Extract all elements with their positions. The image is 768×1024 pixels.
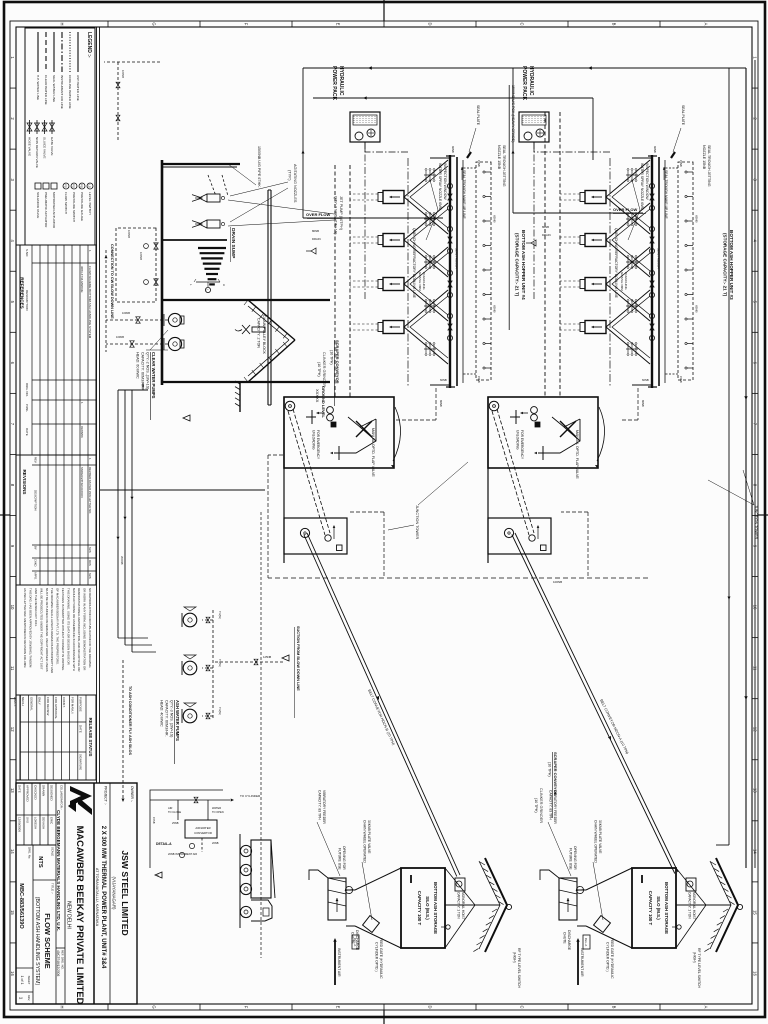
hopper unit #3 refractory cooling dash-dot line [609,158,611,386]
svg-text:MONORAIL HOIST: MONORAIL HOIST [692,892,696,920]
hydraulic dash-dot lines unit #4 [364,142,366,300]
hopper unit #3 rim valve cluster at x=197 [649,183,654,188]
svg-text:Y-1(W): Y-1(W) [218,707,221,715]
svg-text:SCALE: SCALE [51,847,55,856]
svg-text:NEW DELHI: NEW DELHI [66,901,72,929]
svg-text:LEVEL SWITCH: LEVEL SWITCH [88,192,92,215]
svg-text:DESIGNED: DESIGNED [49,785,53,802]
svg-text:CAPACITY: 2 TON: CAPACITY: 2 TON [257,318,261,348]
hopper unit #4 gate-to-channel stubs [350,193,378,195]
hopper unit #4 seal trough jetting nozzle dashed header [476,162,491,380]
svg-text:20NB: 20NB [212,841,219,845]
svg-text:Det.-A: Det.-A [584,938,588,947]
svg-text:PRESSURE GAUGE: PRESSURE GAUGE [80,192,84,221]
svg-text:100NB: 100NB [116,335,124,339]
junction tower #4 clinker grinder [327,407,334,414]
chain pulley block [252,327,265,332]
svg-text:03/08/06: 03/08/06 [80,426,84,438]
svg-text:FUTURE USE: FUTURE USE [569,848,573,870]
svg-text:14: 14 [10,849,15,854]
svg-text:TO CYLINDER: TO CYLINDER [240,794,261,798]
clear water pumps [168,313,181,326]
svg-text:QUENCHING/REFRACTORY COOLING L: QUENCHING/REFRACTORY COOLING LINE [412,228,416,299]
svg-text:GATE VALVE: GATE VALVE [50,137,54,156]
title block bottom row cells [16,967,33,969]
svg-text:1500NB U/S PCK (HEAVY GRADE): 1500NB U/S PCK (HEAVY GRADE) [511,85,515,142]
svg-text:B: B [612,23,617,26]
svg-text:THE DRAWING SHALL ALWAYS REMAI: THE DRAWING SHALL ALWAYS REMAIN OUR PROP… [50,588,54,673]
title block owner row [109,783,111,1004]
svg-text:AIR: AIR [168,806,172,810]
svg-text:PNEUMATIC ACTUATOR: PNEUMATIC ACTUATOR [44,192,48,228]
hopper unit #3 discharge gate at x=327 [585,321,606,334]
svg-text:FEED GATE (HYDRAULIC: FEED GATE (HYDRAULIC [379,938,383,979]
bottom ash storage silo B shell [632,868,676,948]
revisions table [20,455,96,585]
junction tower #4 scraper head pulley [285,401,295,411]
hopper unit #4 discharge gate at x=240 [383,234,404,247]
svg-text:15NB: 15NB [477,160,481,167]
agitating nozzle dashes [222,175,228,196]
svg-text:PS: PS [72,184,76,188]
svg-text:ASH WATER LINE: ASH WATER LINE [76,75,80,101]
release status table [20,695,96,780]
svg-text:(HIGH): (HIGH) [513,952,517,963]
svg-text:16: 16 [10,971,15,976]
svg-text:COLLABORATOR :-: COLLABORATOR :- [60,785,64,810]
svg-text:DESCRIPTION: DESCRIPTION [33,490,37,511]
svg-text:DEMONSTRATIONAL REPRODUCTION,: DEMONSTRATIONAL REPRODUCTION, AND NO ART… [77,588,81,671]
title block project row [93,783,95,1004]
hopper unit #4 rim valve cluster at x=327 [447,313,452,318]
svg-text:ASH WATER PUMPS: ASH WATER PUMPS [175,700,180,741]
references table [20,245,96,455]
svg-text:FOR REVIEW: FOR REVIEW [46,697,50,716]
svg-text:THIS DRAWING, USING ITS DATA O: THIS DRAWING, USING ITS DATA OR DESIGN B… [66,588,70,665]
title block frame [16,783,137,1004]
svg-text:ONLY: ONLY [38,697,42,705]
svg-text:SNRGA/VJT/EC/A/06/06: SNRGA/VJT/EC/A/06/06 [80,467,84,498]
bottom ash storage silo A shell [401,868,445,948]
svg-text:DATE: DATE [79,725,83,733]
svg-text:F: F [244,1006,249,1009]
svg-text:WATER SPRAY NOZZLE 6MM: WATER SPRAY NOZZLE 6MM [640,163,644,210]
junction tower #4 scraper incline [293,409,330,533]
svg-text:MANUFACTURING OR ASSEMBLING IN: MANUFACTURING OR ASSEMBLING IN ACCORDANC… [72,588,76,671]
svg-text:DATE: DATE [25,428,29,436]
svg-text:LOKESH: LOKESH [33,817,37,829]
svg-text:CONST.: CONST. [62,697,66,708]
svg-text:SEAL TROUGH: SEAL TROUGH [455,248,459,269]
svg-text:60NB: 60NB [440,378,447,382]
svg-text:CAPACITY: 1 TON: CAPACITY: 1 TON [457,892,461,919]
monorail beam over sump [270,190,272,405]
svg-text:FUTURE USE: FUTURE USE [338,848,342,870]
svg-text:DISCHARGE: DISCHARGE [567,930,571,951]
svg-text:WILL BE PROSECUTED UNDER THE C: WILL BE PROSECUTED UNDER THE COPYRIGHT A… [39,588,43,670]
svg-text:F: F [244,23,249,26]
bottom ash hopper unit #4 rim line [449,155,451,388]
junction tower #4 emergency unloading spout [311,410,313,424]
svg-text:DRAIN: DRAIN [312,237,321,241]
main overflow pipe top horizontal run [745,68,747,868]
svg-text:SEAL WATER LINE: SEAL WATER LINE [52,75,56,102]
svg-text:VIBRATORY FEEDER: VIBRATORY FEEDER [553,790,557,824]
svg-text:CHUTE: CHUTE [563,932,567,944]
svg-text:BY: BY [33,546,37,550]
svg-text:OPENING FOR: OPENING FOR [342,846,346,870]
svg-text:12: 12 [10,727,15,732]
hopper unit #3 discharge gate at x=197 [585,191,606,204]
flag note at suction [282,655,289,661]
junction tower #3 structure [488,397,598,468]
svg-text:65NB: 65NB [695,305,699,313]
svg-text:TO CLOSE: TO CLOSE [168,810,181,814]
svg-text:DEVASH: DEVASH [41,817,45,829]
svg-text:WATER: WATER [212,806,221,810]
svg-text:(STORAGE CAPACITY:- 21 T): (STORAGE CAPACITY:- 21 T) [723,233,728,297]
detail-A flag [155,872,162,878]
svg-text:Y-1(W): Y-1(W) [218,659,221,667]
silo B roof and railing [716,858,738,952]
svg-text:BOTTOM ASH STORAGE: BOTTOM ASH STORAGE [664,882,669,934]
to ash conditioner dashed line [122,660,124,800]
hopper unit #4 V-section at x=240 [404,203,448,277]
drain sump pit wall [162,299,330,301]
svg-text:H: H [60,1005,65,1008]
hopper unit #4 rim valve cluster at x=240 [447,226,452,231]
belt conveyor tail house #4 [284,518,347,554]
svg-text:XXXXX: XXXXX [315,389,320,403]
svg-text:(TYP.): (TYP.) [288,170,292,181]
svg-text:15NB: 15NB [679,376,683,383]
hydraulic power pack #1 [350,112,380,142]
svg-text:CHAIN PULLEY BLOCK: CHAIN PULLEY BLOCK [262,315,266,355]
hopper unit #3 end connection drops [632,157,652,159]
junction tower #4 structure [284,397,394,468]
legend actuator symbols [51,183,57,189]
svg-text:15NB: 15NB [152,817,156,824]
svg-text:25NB: 25NB [172,821,179,825]
hopper unit #4 V-section at x=284 [404,247,448,321]
hydraulic power pack #2 [519,112,549,142]
svg-text:DETAIL-A: DETAIL-A [156,842,172,846]
hopper unit #3 rim valve cluster at x=327 [649,313,654,318]
svg-text:HEAD: 60 MWC: HEAD: 60 MWC [136,352,140,379]
hopper unit #4 discharge gate at x=284 [383,278,404,291]
svg-text:REF. DRG. NO.: REF. DRG. NO. [61,950,65,970]
drain sump floor [161,160,164,385]
svg-text:CAPACITY: 60M3/HR.: CAPACITY: 60M3/HR. [141,352,145,389]
drain sump water hatch [198,247,226,249]
svg-text:DRG, No.: DRG, No. [28,847,32,859]
svg-text:CHECKED: CHECKED [33,785,37,801]
svg-text:SEAL TROUGH JETTING: SEAL TROUGH JETTING [707,145,711,187]
svg-text:AND THE DESIGN ACT 1911.: AND THE DESIGN ACT 1911. [34,588,38,627]
svg-text:OR WORK IN ANY FORM, INCLUDING: OR WORK IN ANY FORM, INCLUDING DEMONSTRA… [83,588,87,670]
svg-text:SEAL PLATE: SEAL PLATE [681,105,685,126]
svg-text:MACAWBER BEEKAY PRIVATE LIMITE: MACAWBER BEEKAY PRIVATE LIMITED [75,826,86,1005]
svg-text:60NB: 60NB [653,146,657,153]
svg-text:A: A [704,1006,709,1009]
svg-text:MECH.: MECH. [21,697,25,707]
instrument air dashed run [260,512,262,958]
svg-text:CONVERTOR: CONVERTOR [194,831,212,835]
overflow branch line unit #3 [512,68,514,213]
svg-text:TO ASH CONDITIONER FLY ASH SIL: TO ASH CONDITIONER FLY ASH SILOS [128,686,132,755]
svg-text:INSPECTION WINDOW: INSPECTION WINDOW [443,163,447,200]
svg-text:QTY:-2 NOS.,(1W+1S): QTY:-2 NOS.,(1W+1S) [334,196,338,235]
svg-text:PG: PG [80,184,84,188]
junction tower #4 dashed bypass arc [393,407,401,461]
overflow branch line unit #4 [302,68,304,218]
svg-text:GENERAL: GENERAL [29,697,33,711]
svg-text:NO REPRODUCTION OR PUBLICATION: NO REPRODUCTION OR PUBLICATION OF THE DR… [88,588,92,668]
svg-text:C: C [520,22,525,25]
svg-text:30KNB PLATE VALVE: 30KNB PLATE VALVE [367,820,371,854]
svg-text:TO OPEN: TO OPEN [212,810,224,814]
legend box [25,28,95,245]
pipe elbows into ash water pump suction [132,651,156,653]
sump drain line down [100,489,265,491]
belt conveyor HDCN-B incline [307,533,460,875]
svg-text:3083-4744-M0#03E: 3083-4744-M0#03E [80,266,84,293]
svg-text:REFERENCES: REFERENCES [20,277,25,308]
svg-text:PURPOSE: PURPOSE [79,697,83,712]
svg-text:H: H [60,22,65,25]
bottom ash hopper unit #3 rim line [651,155,653,388]
svg-text:100NB: 100NB [139,252,143,260]
svg-text:49/C5748/12/2006: 49/C5748/12/2006 [56,950,60,976]
svg-text:FEED GATE (HYDRAULIC: FEED GATE (HYDRAULIC [610,938,614,979]
junction tower #4 Y discharge chute [342,419,376,453]
svg-text:RELEASE STATUS: RELEASE STATUS [88,718,93,757]
svg-text:FLOW SCHEME: FLOW SCHEME [43,913,52,968]
blow down corner dashed run [104,61,160,63]
svg-text:DRAIN SUMP: DRAIN SUMP [230,228,236,259]
svg-text:G: G [152,22,157,25]
svg-text:AT TORANAGALLU, KARNATAKA: AT TORANAGALLU, KARNATAKA [95,868,99,927]
svg-text:(STORAGE CAPACITY:- 21 T): (STORAGE CAPACITY:- 21 T) [515,233,520,297]
svg-text:SVS: SVS [25,817,29,823]
svg-text:(10 TPH): (10 TPH) [534,798,538,813]
scraper conveyor channel unit #3 [559,112,561,397]
svg-text:80NB: 80NB [542,225,549,229]
hopper unit #3 rim valve cluster at x=240 [649,226,654,231]
A-frame gantry [248,300,295,340]
junction tower #3 flap valve spout [542,446,544,460]
svg-text:125NB: 125NB [263,655,271,659]
svg-text:MANUAL OPTD. FLAP VALVE: MANUAL OPTD. FLAP VALVE [575,430,579,479]
svg-text:TITLE :-: TITLE :- [51,883,55,894]
svg-text:H.P. WATER LINE: H.P. WATER LINE [36,75,40,100]
silo B instrument air arrow [577,940,579,985]
ash water pumps riser to suction line [213,661,283,663]
svg-text:DESCRIPTION: DESCRIPTION [25,290,29,311]
svg-text:1 of 1: 1 of 1 [20,976,24,985]
hopper unit #3 seal trough jetting nozzle dashed header [678,162,693,380]
svg-text:D: D [428,1005,433,1008]
detail-A piping [150,799,230,801]
svg-text:(BOTTOM ASH HANDLING SYSTEM): (BOTTOM ASH HANDLING SYSTEM) [34,897,40,986]
drain sump right wall [162,381,330,383]
svg-text:SILO (M.S.): SILO (M.S.) [425,896,430,920]
svg-text:SIGNATURE: SIGNATURE [79,754,83,770]
dump truck [251,840,271,898]
junction tower #3 scraper incline [497,409,534,533]
svg-text:CAPACITY: 83 TPH: CAPACITY: 83 TPH [318,790,322,820]
svg-text:OWNER :-: OWNER :- [130,786,134,802]
svg-text:30KNB PLATE VALVE: 30KNB PLATE VALVE [598,820,602,854]
svg-text:CLEAR WATER PUMPS: CLEAR WATER PUMPS [151,352,156,399]
belt conveyor HDCN-A incline [515,533,678,872]
svg-text:CYLINDER OPTD.): CYLINDER OPTD.) [375,942,379,972]
svg-text:NOZZLE 6MM: NOZZLE 6MM [418,272,422,291]
drain sump partition wall [162,239,227,241]
svg-text:QUENCHING/REFRACTORY COOLING L: QUENCHING/REFRACTORY COOLING LINE [614,228,618,299]
svg-text:(10 TPH): (10 TPH) [317,362,321,377]
svg-text:G: G [152,1005,157,1008]
svg-text:QTY:-3 NOS. (2W+1S): QTY:-3 NOS. (2W+1S) [170,700,174,737]
main overflow pipe vertical run [303,67,746,69]
hopper unit #4 rim valve cluster at x=284 [447,270,452,275]
svg-text:15NB: 15NB [679,160,683,167]
hopper unit #4 discharge gate at x=197 [383,191,404,204]
title block scale cell [33,879,56,881]
svg-text:SHEET: SHEET [27,976,31,985]
svg-text:FOR MANU./: FOR MANU./ [70,697,74,714]
svg-text:60NB: 60NB [642,378,649,382]
junction tower #3 Y discharge chute [546,419,580,453]
svg-text:THIS DRG. HAS BEEN APPROVED BY: THIS DRG. HAS BEEN APPROVED BY JSW/BHEL/… [29,588,33,668]
svg-text:SVS: SVS [88,573,92,579]
info strip boundary double line [99,27,101,783]
svg-text:10: 10 [10,605,15,610]
svg-text:REVISED AS PER JSW LETTER NO.: REVISED AS PER JSW LETTER NO. [88,467,92,514]
svg-text:BOTTOM ASH HOPPER UNIT #3: BOTTOM ASH HOPPER UNIT #3 [729,230,734,300]
svg-text:FLOW SCHEME BOTTOM ASH HANDLIN: FLOW SCHEME BOTTOM ASH HANDLING SYSTEM [88,266,92,339]
hopper unit #4 V-section at x=327 [404,290,448,364]
svg-text:SCRAPER CONVEYOR: SCRAPER CONVEYOR [335,340,340,384]
svg-text:CHAIN WHEEL OPERATED: CHAIN WHEEL OPERATED [363,820,367,863]
svg-text:H: H [222,284,226,286]
svg-text:13: 13 [10,788,15,793]
silo B level switch [677,925,681,929]
silo A future opening valve [344,885,354,895]
svg-text:FS: FS [64,184,68,188]
svg-text:INSPECTION WINDOW: INSPECTION WINDOW [645,163,649,200]
svg-text:16: 16 [752,971,757,976]
svg-text:SVS: SVS [88,547,92,553]
svg-text:CLINKER GRINDER: CLINKER GRINDER [539,788,543,823]
detail-A boundary [150,790,223,868]
silo A discharge funnel [355,868,401,890]
towers interconnect dashes #4 [435,388,437,420]
svg-text:CAPACITY: 1 TON: CAPACITY: 1 TON [688,892,692,919]
hopper unit #3 rim valve cluster at x=284 [649,270,654,275]
svg-text:POWER PACK: POWER PACK [521,66,527,100]
svg-text:CAPACITY: 83 TPH: CAPACITY: 83 TPH [549,790,553,820]
svg-text:200NB: 200NB [120,556,124,565]
svg-text:SILO (M.S.): SILO (M.S.) [656,896,661,920]
centre fold marks [383,0,385,21]
svg-text:HYDRAULIC: HYDRAULIC [528,66,534,96]
svg-text:OVER FLOW: OVER FLOW [306,212,330,217]
svg-text:FOR EMERGENCY: FOR EMERGENCY [316,430,320,460]
svg-text:MONORAIL HOIST: MONORAIL HOIST [461,892,465,920]
svg-text:CHUTE: CHUTE [351,932,355,944]
hopper unit #3 gate-to-channel stubs [560,193,580,195]
svg-text:(10 TPH): (10 TPH) [330,350,334,365]
hopper unit #4 rim valve cluster at x=197 [447,183,452,188]
svg-text:DRAIN: DRAIN [542,233,551,237]
towers interconnect dashes #3 [637,388,639,420]
svg-text:FLOW SWITCH: FLOW SWITCH [64,192,68,214]
svg-text:APPROVED: APPROVED [25,785,29,803]
svg-text:AIR/WATER: AIR/WATER [195,826,210,830]
svg-text:QTY:-2 NOS.,(1W+1S): QTY:-2 NOS.,(1W+1S) [146,352,150,389]
svg-text:LS: LS [88,184,92,188]
svg-text:WATER SPRAY NOZZLE 6MM: WATER SPRAY NOZZLE 6MM [438,163,442,210]
junction tower #3 clinker grinder [531,407,538,414]
hopper unit #3 V-section at x=240 [606,203,650,277]
svg-text:AS PER LETTER REF. MENTIONED I: AS PER LETTER REF. MENTIONED IN REVISION… [23,588,27,668]
svg-text:100NB: 100NB [121,70,125,78]
svg-text:100NB: 100NB [553,580,562,584]
svg-text:BOTTOM ASH STORAGE: BOTTOM ASH STORAGE [433,882,438,934]
svg-text:SEAL TROUGH MAKE UP LINE: SEAL TROUGH MAKE UP LINE [664,170,668,219]
svg-text:15NB: 15NB [477,376,481,383]
svg-text:PROJECT :-: PROJECT :- [104,786,108,805]
svg-text:NOZZLE 15NB: NOZZLE 15NB [497,145,501,170]
svg-text:RF TYPE LEVEL SWITCH: RF TYPE LEVEL SWITCH [517,948,521,988]
svg-text:CAPACITY: 60M3/HR.: CAPACITY: 60M3/HR. [165,700,169,737]
svg-text:COOLING WATER LINE: COOLING WATER LINE [68,75,72,109]
svg-text:E: E [336,23,341,26]
silo B future opening valve [575,885,585,895]
svg-text:80NB: 80NB [641,400,645,407]
svg-text:DRG. NO.: DRG. NO. [25,383,29,397]
svg-text:ELECT.: ELECT. [13,697,17,707]
svg-text:RF TYPE LEVEL SWITCH: RF TYPE LEVEL SWITCH [697,948,701,988]
svg-text:CHKD.: CHKD. [33,559,37,567]
svg-text:E: E [336,1006,341,1009]
hopper unit #3 V-section at x=284 [606,247,650,321]
hopper unit #3 seal trough lines [664,160,666,383]
svg-text:B: B [612,1006,617,1009]
hopper unit #4 spray nozzle branch clusters [424,174,436,176]
silo B discharge funnel [586,868,632,890]
svg-text:DATE: DATE [17,785,21,793]
junction tower #3 scraper head pulley [489,401,499,411]
svg-text:(VIJAYANAGAR): (VIJAYANAGAR) [112,876,117,910]
scraper conveyor channel unit #4 [349,165,351,397]
svg-text:CHAIN WHEEL OPERATED: CHAIN WHEEL OPERATED [594,820,598,863]
svg-text:NOZZLE 6MM: NOZZLE 6MM [620,272,624,291]
level switch in sump [205,287,210,292]
hopper unit #4 discharge gate at x=327 [383,321,404,334]
svg-text:FEATURES IS PERMITTED WITHOUT: FEATURES IS PERMITTED WITHOUT CONSENT IN… [61,588,65,671]
svg-text:(10 TPH): (10 TPH) [548,762,552,777]
silo A monorail hoist [455,878,465,891]
silo A plate valve [363,916,380,933]
silo B monorail hoist [686,878,696,891]
hopper unit #3 V-section at x=327 [606,290,650,364]
svg-text:HEAD: 40 MWC: HEAD: 40 MWC [160,700,164,727]
svg-text:80NB: 80NB [312,229,319,233]
svg-text:INSTRUMENT AIR LINE: INSTRUMENT AIR LINE [60,75,64,109]
svg-text:BOTTOM ASH HOPPER UNIT #4: BOTTOM ASH HOPPER UNIT #4 [521,230,526,300]
